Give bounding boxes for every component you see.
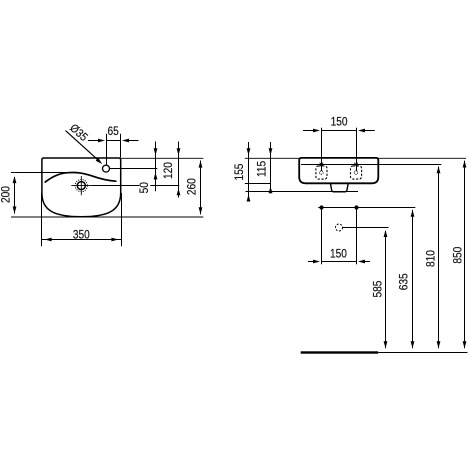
dim 200 top extension line (rim level): [11, 172, 67, 174]
svg-text:155: 155: [234, 164, 247, 181]
svg-text:350: 350: [73, 229, 90, 242]
dim 200 up arrow: [13, 176, 17, 183]
svg-text:850: 850: [452, 247, 465, 264]
dim 65 extension line at tap hole: [106, 134, 108, 165]
left extension of bottom edge: [245, 183, 271, 185]
dim 150 top line: [322, 130, 357, 132]
dim 150 top right arrow: [365, 130, 375, 132]
wall hole right extension down: [356, 208, 358, 265]
dim 155 shaft: [248, 142, 250, 202]
basin inner rim wave: [45, 172, 116, 182]
dim 260 up arrow: [199, 161, 203, 168]
svg-text:635: 635: [398, 273, 411, 290]
top edge right extension line: [121, 157, 204, 159]
dim 50 shaft: [155, 142, 157, 192]
fixing hole left dashed square: [316, 166, 327, 179]
dim 810 up arrow: [437, 166, 441, 173]
wall hole left extension down: [321, 208, 323, 265]
dim 120 down arrow: [177, 148, 181, 155]
wall hole right dot: [354, 205, 358, 209]
dim 350 line: [42, 239, 122, 241]
svg-text:65: 65: [107, 125, 118, 138]
dim 810 shaft: [438, 167, 440, 349]
bottom tangent extension line: [11, 216, 203, 218]
left extension of top edge: [245, 157, 299, 159]
dim 850 down arrow: [463, 341, 467, 348]
fixing hole left inner dashed circle: [320, 171, 324, 175]
fixing hole left cross tick: [319, 164, 325, 166]
drain inner circle: [77, 182, 85, 190]
wall holes line: [318, 207, 415, 209]
dim 350 right extension: [121, 193, 123, 246]
svg-text:260: 260: [186, 178, 199, 195]
basin front outline: [42, 158, 121, 217]
fixing hole right cross diagonals: [354, 163, 358, 167]
dim 155 down arrow: [247, 148, 251, 155]
drain trap outline: [330, 183, 348, 192]
dim 65 right arrow: [128, 140, 138, 142]
top edge right extension to 850: [378, 157, 466, 159]
dim 350 left arrow: [45, 238, 52, 242]
dim 150 bottom left arrow: [308, 261, 314, 263]
svg-text:150: 150: [331, 116, 348, 129]
dim 585 shaft: [385, 231, 387, 348]
leader line for tap hole: [66, 131, 101, 162]
svg-text:50: 50: [138, 182, 151, 193]
dim 150 bottom right arrow: [365, 261, 371, 263]
dim 200 line: [14, 177, 16, 214]
dim 350 right arrow: [111, 238, 118, 242]
leader arrowhead: [96, 158, 103, 164]
dim 850 shaft: [464, 161, 466, 349]
drain crosshair vertical: [80, 176, 82, 195]
dim 155 up arrow: [247, 195, 251, 202]
fixing hole right inner dashed circle: [354, 171, 358, 175]
svg-text:810: 810: [425, 250, 438, 267]
dim 120 up arrow: [177, 188, 181, 195]
dim 120 shaft: [178, 142, 180, 198]
tap hole centre line B: [110, 168, 158, 170]
dim 150 top right extension: [356, 128, 358, 171]
dim 850 up arrow: [463, 161, 467, 168]
dim 260 shaft: [200, 161, 202, 215]
drain centre line C right part: [150, 185, 179, 187]
fixing hole right cross tick: [353, 164, 359, 166]
drain outlet level line: [343, 227, 389, 229]
rim back ledge line through basin: [301, 164, 441, 166]
svg-text:150: 150: [330, 248, 347, 261]
dim 635 up arrow: [411, 210, 415, 217]
drain centre line C left part: [91, 185, 139, 187]
fixing hole left cross diagonals: [320, 163, 324, 167]
drain crosshair horizontal: [71, 185, 91, 187]
tap hole circle: [103, 165, 110, 172]
dim 585 up arrow: [384, 230, 388, 237]
dim 50 up arrow: [154, 172, 158, 179]
basin plan outline: [299, 158, 378, 183]
floor thin line: [378, 352, 467, 354]
dim 150 top left extension: [321, 128, 323, 171]
svg-text:115: 115: [256, 161, 269, 177]
svg-text:200: 200: [0, 186, 13, 203]
drain outlet dashed circle: [336, 224, 343, 231]
dim 635 down arrow: [411, 341, 415, 348]
trap bottom extension line: [246, 191, 359, 193]
dim 50 down arrow: [154, 148, 158, 155]
dim 260 down arrow: [199, 207, 203, 214]
dim 200 down arrow: [13, 207, 17, 214]
dim 65 extension line at basin right edge: [120, 134, 122, 158]
dim 115 down arrow: [269, 148, 273, 155]
dim 115 up arrow: [269, 186, 273, 193]
dim 115 shaft: [270, 142, 272, 193]
dim 810 down arrow: [437, 341, 441, 348]
drain outer dashed circle: [75, 180, 87, 192]
dim 150 bottom line: [322, 261, 357, 263]
svg-text:585: 585: [372, 281, 385, 298]
dim 635 shaft: [412, 210, 414, 348]
dim 65 left arrow: [88, 140, 99, 142]
fixing hole right dashed square: [351, 166, 362, 179]
dim 350 left extension: [41, 193, 43, 246]
wall hole left dot: [319, 205, 323, 209]
dim 65 line: [107, 140, 121, 142]
dim 150 top left arrow: [303, 130, 314, 132]
dim 585 down arrow: [384, 341, 388, 348]
floor thick line: [301, 351, 378, 353]
svg-text:120: 120: [163, 162, 176, 179]
